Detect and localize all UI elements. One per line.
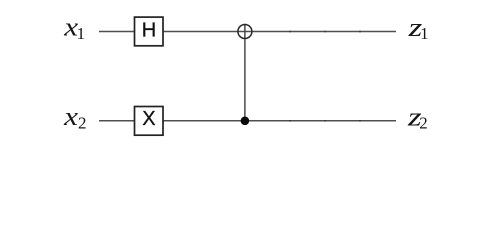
wire q2 right segment bbox=[163, 120, 396, 122]
wire joint ticks bottom bbox=[289, 120, 361, 122]
svg-text:1: 1 bbox=[77, 24, 86, 43]
svg-text:x: x bbox=[63, 102, 78, 131]
wire joint ticks top bbox=[289, 31, 361, 33]
wire q1 right segment bbox=[163, 31, 396, 33]
svg-text:H: H bbox=[142, 20, 156, 42]
svg-text:1: 1 bbox=[420, 24, 429, 43]
wire vertical CNOT connector bbox=[244, 24, 246, 121]
wire q2 left segment bbox=[99, 120, 135, 122]
wire q1 left segment bbox=[99, 31, 135, 33]
gate X box bbox=[135, 107, 164, 136]
svg-text:2: 2 bbox=[78, 113, 87, 132]
svg-text:X: X bbox=[142, 108, 155, 130]
control dot bbox=[241, 117, 250, 126]
svg-text:2: 2 bbox=[419, 113, 428, 132]
gate H box bbox=[135, 17, 164, 46]
CNOT target circle bbox=[238, 25, 252, 39]
